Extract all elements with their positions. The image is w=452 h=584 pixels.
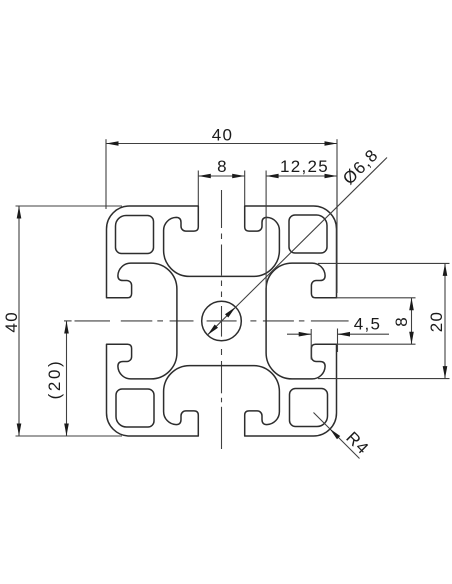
svg-text:(20): (20) — [45, 359, 64, 400]
dim 8 right: arrowhead — [409, 298, 414, 311]
dim 40 top: extension line left — [105, 139, 107, 209]
profile outline 40x40 — [107, 206, 337, 436]
centerline horizontal — [64, 320, 72, 322]
dim R4: arrowhead — [330, 429, 340, 439]
dim (20): arrowhead — [64, 321, 69, 334]
svg-text:8: 8 — [217, 157, 228, 176]
dim 4,5: arrowhead — [338, 332, 351, 337]
dim dia 6,8: arrowhead — [208, 325, 219, 336]
dim 40 left: arrowhead — [17, 424, 22, 437]
dim 40 top: dimension line — [106, 143, 337, 145]
dim 40 top: extension line right — [336, 139, 338, 209]
dim 4,5: dimension line + tails — [287, 333, 311, 335]
dim 12,25: extension line right — [336, 171, 338, 294]
dim 8 right: extension lines — [337, 297, 416, 299]
dim 8 top: extension lines — [197, 171, 199, 206]
dim (20): arrowhead — [64, 424, 69, 437]
svg-text:4,5: 4,5 — [354, 315, 382, 334]
dim 40 left: dimension line — [18, 206, 20, 436]
svg-text:8: 8 — [392, 316, 411, 327]
dim 20 right: arrowhead — [443, 366, 448, 379]
dim (20): dimension line — [66, 321, 68, 436]
dim 8 right: arrowhead — [409, 332, 414, 345]
dim 4,5: extension lines — [310, 329, 312, 360]
dim 8 top: dimension line — [198, 175, 244, 177]
center hole dia 6.8 — [202, 301, 242, 341]
dim 8 top: arrowhead — [198, 174, 211, 179]
dim dia 6,8: leader line — [208, 158, 388, 336]
dim 4,5: arrowhead — [299, 332, 312, 337]
corner channel bottom-right — [290, 389, 328, 427]
dim dia 6,8: arrowhead — [225, 307, 236, 318]
dim 8 right: dimension line — [411, 298, 413, 344]
corner channel bottom-left — [116, 389, 154, 427]
dim 12,25: arrowhead — [266, 174, 279, 179]
corner channel top-right — [289, 215, 327, 253]
dim 8 top: arrowhead — [232, 174, 245, 179]
svg-text:12,25: 12,25 — [280, 157, 329, 176]
dim R4: leader line — [314, 413, 360, 459]
dim 20 right: extension lines — [318, 262, 450, 264]
corner channel top-left — [116, 216, 154, 254]
dim 12,25: dimension line — [266, 175, 337, 177]
svg-text:40: 40 — [212, 126, 234, 145]
dim 12,25: extension line left (slot bottom) — [265, 171, 267, 289]
dim 40 left: arrowhead — [17, 206, 22, 219]
dim 40 left: extension lines — [16, 205, 123, 207]
dim 12,25: arrowhead — [325, 174, 338, 179]
svg-text:20: 20 — [427, 311, 446, 333]
svg-text:40: 40 — [2, 311, 21, 333]
dim 40 top: arrowhead — [325, 141, 338, 146]
centerline vertical — [221, 190, 223, 228]
dim 20 right: arrowhead — [443, 263, 448, 276]
dim 40 top: arrowhead — [106, 141, 119, 146]
dim 20 right: dimension line — [444, 263, 446, 378]
